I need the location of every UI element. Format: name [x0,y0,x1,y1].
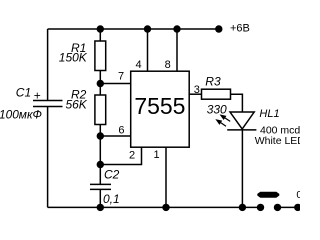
svg-text:8: 8 [165,59,171,71]
svg-text:3: 3 [194,84,200,96]
svg-text:7555: 7555 [134,93,185,119]
svg-text:6: 6 [118,125,124,137]
svg-text:330: 330 [207,102,227,116]
svg-text:150K: 150K [59,51,88,65]
svg-text:0,1: 0,1 [103,192,120,206]
svg-text:1: 1 [153,149,159,161]
svg-text:+6В: +6В [230,23,250,35]
svg-text:7: 7 [118,71,124,83]
svg-text:C2: C2 [104,167,120,181]
svg-text:0: 0 [296,189,300,201]
svg-text:C1: C1 [16,85,31,99]
svg-text:56K: 56K [65,98,87,112]
svg-text:2: 2 [129,149,135,161]
svg-text:R3: R3 [205,74,221,88]
svg-text:4: 4 [135,59,141,71]
svg-text:White LED: White LED [255,135,300,147]
svg-text:HL1: HL1 [259,108,279,120]
svg-text:+: + [34,88,41,102]
svg-text:100мкФ: 100мкФ [0,109,42,121]
